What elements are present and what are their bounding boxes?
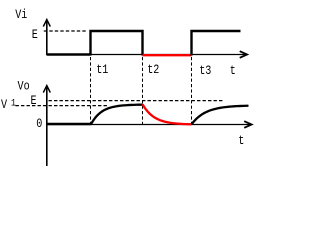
Vo t-axis arrowhead — [244, 121, 251, 128]
svg-text:Vo: Vo — [18, 79, 30, 93]
V1 level dashed line (bottom plot) — [16, 105, 109, 107]
Vi y-axis arrowhead — [43, 20, 50, 27]
Vo y-axis arrowhead — [43, 86, 50, 93]
Vi y-axis shaft — [46, 20, 48, 55]
dashed guide at t1 — [90, 57, 92, 125]
Vo waveform zero segment before t1 — [47, 123, 92, 125]
Vi waveform pulse after t3 — [192, 31, 241, 56]
svg-text:t: t — [238, 134, 244, 148]
Vo waveform charging curve t1-t2 — [91, 105, 143, 124]
Vo y-axis shaft — [46, 86, 48, 166]
svg-text:1: 1 — [11, 97, 16, 109]
dashed guide at t2 — [142, 57, 144, 125]
Vi waveform red low segment t2-t3 — [143, 54, 192, 56]
Vi waveform pulse t1-t2 — [91, 31, 143, 56]
svg-text:t2: t2 — [147, 63, 159, 77]
svg-text:t1: t1 — [96, 63, 108, 77]
svg-text:V: V — [1, 98, 7, 112]
Vi t-axis shaft — [47, 54, 247, 56]
svg-text:E: E — [31, 94, 37, 108]
E level dashed line (bottom plot) — [49, 100, 225, 102]
svg-text:Vi: Vi — [15, 8, 27, 22]
dashed guide at t3 — [191, 57, 193, 125]
Vi t-axis arrowhead — [240, 51, 247, 58]
Vo waveform charging curve after t3 — [192, 106, 249, 124]
svg-text:t: t — [230, 64, 236, 78]
svg-text:t3: t3 — [199, 64, 211, 78]
Vo waveform red discharging curve t2-t3 — [143, 104, 192, 124]
Vo t-axis shaft — [47, 124, 251, 126]
Vi waveform low segment before t1 — [47, 53, 91, 55]
svg-text:0: 0 — [36, 117, 42, 131]
svg-text:E: E — [32, 28, 38, 42]
E level dashed line (top plot) — [44, 30, 86, 32]
